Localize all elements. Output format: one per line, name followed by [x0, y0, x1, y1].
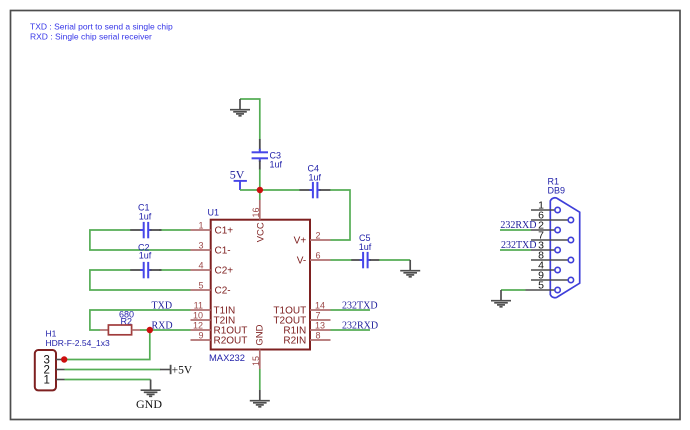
svg-text:4: 4	[198, 260, 203, 270]
svg-text:11: 11	[194, 300, 203, 310]
wire R2 to R1OUT	[140, 329, 191, 331]
svg-text:V-: V-	[297, 256, 306, 267]
svg-text:+5V: +5V	[172, 365, 193, 377]
svg-text:5: 5	[538, 280, 544, 292]
svg-text:TXD: TXD	[152, 300, 173, 311]
wire 232TXD to DB9 pin3	[500, 249, 531, 251]
svg-text:V+: V+	[294, 236, 307, 247]
svg-text:6: 6	[316, 250, 321, 260]
wire 5V rail to C4	[240, 189, 300, 191]
svg-text:15: 15	[251, 356, 261, 366]
U1 inner pin names right	[273, 236, 306, 347]
DB9 pin stubs	[526, 210, 569, 290]
svg-text:1uf: 1uf	[309, 173, 322, 183]
svg-text:C1-: C1-	[215, 246, 231, 257]
svg-text:5: 5	[198, 280, 203, 290]
svg-text:R2OUT: R2OUT	[214, 336, 248, 347]
svg-text:HDR-F-2.54_1x3: HDR-F-2.54_1x3	[46, 338, 111, 348]
junction dot 5V rail	[257, 187, 263, 193]
DB9 pin numbers	[538, 200, 544, 292]
svg-text:16: 16	[251, 207, 261, 217]
svg-text:DB9: DB9	[548, 186, 566, 196]
wire C2 left loop to pin5	[90, 270, 191, 290]
svg-text:8: 8	[316, 330, 321, 340]
svg-text:C2-: C2-	[215, 286, 231, 297]
U1 inner pin names left	[214, 226, 248, 347]
ground right of C5	[400, 260, 420, 277]
wire C2 right to pin4	[159, 269, 191, 271]
U1 pin 16 stub top	[259, 200, 261, 220]
ground below U1	[250, 390, 270, 407]
svg-text:7: 7	[316, 310, 321, 320]
svg-text:2: 2	[316, 230, 321, 240]
U1 right pin numbers	[315, 230, 325, 340]
svg-text:1uf: 1uf	[359, 242, 372, 252]
svg-text:1: 1	[44, 375, 50, 387]
svg-text:1uf: 1uf	[270, 160, 283, 170]
ground DB9 pin5	[491, 290, 511, 307]
wire RXD down to H1 pin3	[64, 330, 150, 360]
DB9 connector R1	[548, 177, 580, 298]
wire junction to pin16	[259, 190, 261, 200]
capacitor C4	[300, 164, 331, 199]
capacitor C1	[130, 203, 161, 239]
svg-text:12: 12	[193, 320, 203, 330]
U1 left pin numbers	[193, 220, 204, 340]
wire V- to C5	[331, 259, 352, 261]
wire TXD to T1IN	[90, 310, 191, 330]
svg-text:RXD : Single chip serial recei: RXD : Single chip serial receiver	[30, 32, 152, 42]
wire C4 to V+ pin	[330, 190, 350, 240]
svg-text:232RXD: 232RXD	[342, 320, 378, 331]
svg-text:C1+: C1+	[215, 226, 234, 237]
capacitor C2	[130, 243, 161, 279]
svg-text:14: 14	[315, 300, 325, 310]
svg-text:U1: U1	[208, 208, 220, 218]
svg-text:MAX232: MAX232	[209, 352, 245, 363]
wire C3 bottom to 5V rail	[259, 169, 261, 190]
capacitor C5	[351, 233, 379, 268]
svg-text:1: 1	[198, 220, 203, 230]
wire C1 right to pin1	[159, 229, 191, 231]
svg-text:1uf: 1uf	[139, 212, 152, 222]
5V power symbol	[230, 167, 247, 190]
header H1	[35, 329, 110, 391]
wire R1IN 232RXD	[331, 329, 371, 331]
svg-text:9: 9	[198, 330, 203, 340]
svg-text:1uf: 1uf	[139, 251, 152, 261]
wire DB9 pin5 to ground	[501, 289, 526, 291]
svg-text:VCC: VCC	[255, 222, 266, 242]
DB9 pin circles	[555, 207, 574, 292]
IC U1 MAX232	[208, 208, 311, 363]
svg-text:C2+: C2+	[215, 266, 234, 277]
svg-text:13: 13	[315, 320, 325, 330]
capacitor C3	[252, 139, 283, 170]
wire C1 left loop to pin3	[90, 230, 191, 250]
wire T1OUT 232TXD	[331, 309, 371, 311]
svg-text:10: 10	[193, 310, 203, 320]
svg-text:R2IN: R2IN	[283, 336, 306, 347]
resistor R2	[100, 310, 140, 335]
svg-text:GND: GND	[136, 397, 162, 411]
wire H1 pin2 to +5V	[65, 369, 161, 371]
junction dot H1 pin3	[61, 356, 67, 362]
U1 right pin stubs	[310, 240, 331, 340]
svg-text:3: 3	[198, 240, 203, 250]
wire ground-to-C3 top	[240, 99, 260, 140]
+5V power symbol	[160, 365, 193, 377]
wire 232RXD to DB9 pin2	[500, 229, 531, 231]
wire C5 to ground	[379, 259, 410, 261]
U1 pin 15 stub bottom	[259, 350, 261, 370]
svg-text:232TXD: 232TXD	[342, 300, 378, 311]
wire pin15 to ground	[259, 369, 261, 390]
junction dot RXD	[147, 327, 153, 333]
svg-text:GND: GND	[255, 324, 266, 345]
svg-text:TXD : Serial port to send a si: TXD : Serial port to send a single chip	[30, 22, 173, 32]
svg-text:5V: 5V	[230, 167, 245, 181]
wire H1 pin1 to ground	[65, 379, 151, 381]
ground top (near C3)	[230, 99, 250, 116]
U1 left pin stubs	[191, 230, 211, 340]
ground H1 pin1	[141, 380, 161, 397]
DB9 body	[550, 198, 579, 298]
